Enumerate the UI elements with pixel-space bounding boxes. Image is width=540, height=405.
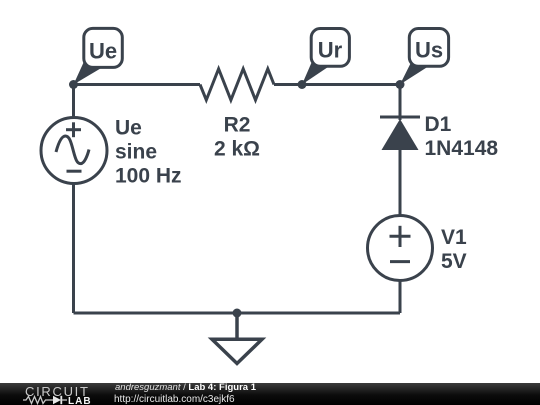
wire top: node Ue to resistor R2 <box>74 83 201 86</box>
callout box Ur <box>311 29 349 67</box>
callout tail Ur <box>302 62 331 85</box>
callout box Us <box>409 29 448 67</box>
svg-text:V1: V1 <box>441 226 467 249</box>
wire: source V1 to bottom rail <box>399 281 402 314</box>
callout tail Ue <box>74 62 106 85</box>
wire bottom rail <box>74 312 401 315</box>
svg-text:1N4148: 1N4148 <box>425 137 499 160</box>
V1 minus sign <box>390 260 410 263</box>
callout tail Us <box>400 62 431 85</box>
svg-text:Ue: Ue <box>89 38 117 63</box>
svg-text:100 Hz: 100 Hz <box>115 165 182 188</box>
junction node ground <box>233 309 242 318</box>
wire: source Ue to bottom rail <box>72 184 75 314</box>
svg-text:R2: R2 <box>224 114 251 137</box>
svg-text:LAB: LAB <box>68 396 92 405</box>
junction node Ue <box>69 80 78 89</box>
callout box Ue <box>84 28 123 67</box>
diode D1 cathode bar <box>380 116 420 119</box>
svg-text:andresguzmant / Lab 4: Figura: andresguzmant / Lab 4: Figura 1 <box>115 382 257 393</box>
V1 plus sign <box>390 235 411 238</box>
ground stub wire <box>235 313 239 339</box>
resistor R2 <box>200 69 274 100</box>
svg-text:http://circuitlab.com/c3ejkf6: http://circuitlab.com/c3ejkf6 <box>114 394 235 405</box>
logo diode symbol <box>50 399 53 401</box>
junction node Ur <box>298 80 307 89</box>
voltage source V1 circle <box>368 216 433 281</box>
voltage source Ue circle <box>41 118 107 184</box>
source Ue sine wave <box>56 136 89 164</box>
svg-text:Ur: Ur <box>318 38 343 63</box>
wire: node Us to diode D1 cathode <box>399 85 402 121</box>
source Ue plus sign <box>66 128 81 131</box>
ground symbol <box>212 339 262 363</box>
wire top: resistor R2 to node Us <box>274 83 400 86</box>
junction node Us <box>396 80 405 89</box>
svg-text:sine: sine <box>115 141 157 164</box>
wire: node Ue to source Ue <box>72 85 75 119</box>
svg-text:D1: D1 <box>425 113 452 136</box>
logo resistor zigzag <box>23 397 50 404</box>
svg-text:Ue: Ue <box>115 117 142 140</box>
wire: diode D1 anode to source V1 <box>399 149 402 216</box>
source Ue minus sign <box>67 170 82 173</box>
svg-text:5V: 5V <box>441 250 467 273</box>
svg-text:Us: Us <box>415 38 443 63</box>
svg-text:2 kΩ: 2 kΩ <box>214 138 260 161</box>
diode D1 triangle <box>382 119 419 150</box>
